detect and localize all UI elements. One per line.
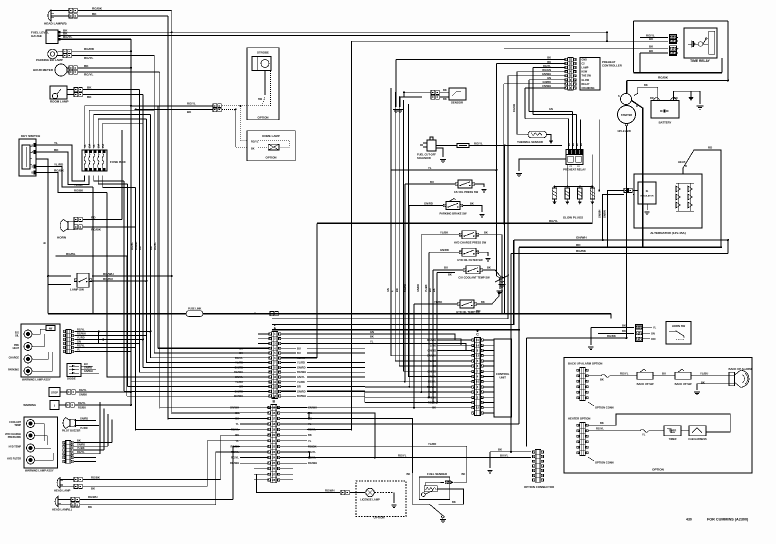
stop wires xyxy=(60,391,67,393)
battery frame arrow xyxy=(688,97,693,101)
svg-text:GN/YL: GN/YL xyxy=(235,375,243,379)
wire RG/WH lamp sw xyxy=(92,275,172,277)
wire RG/WH head lamp L xyxy=(58,498,71,500)
wire B row18 long xyxy=(307,423,519,425)
wire horn sw labels xyxy=(643,327,652,329)
wire B row24 long xyxy=(281,457,531,459)
svg-text:ST: ST xyxy=(32,166,36,169)
wire mid ground 2 xyxy=(499,278,501,289)
svg-text:WARNING LAMP ASSY: WARNING LAMP ASSY xyxy=(22,378,51,382)
svg-text:10A: 10A xyxy=(97,144,100,149)
parking brake lamp xyxy=(48,49,58,59)
svg-text:BU/WH: BU/WH xyxy=(297,394,306,398)
wire RG/WH license xyxy=(256,474,340,492)
svg-text:STARTER: STARTER xyxy=(621,114,632,117)
license lamp option box xyxy=(356,481,406,517)
connector horn xyxy=(74,217,78,221)
svg-text:GN/RD: GN/RD xyxy=(417,284,420,292)
wire fuel sender left BK xyxy=(411,420,413,504)
svg-text:RELAY: RELAY xyxy=(582,83,590,86)
wire A feeders from bundle xyxy=(158,347,244,349)
head lamp L connector xyxy=(71,497,75,501)
wire to dome lamp row1 xyxy=(240,106,247,141)
wire y48 run xyxy=(504,48,634,50)
svg-text:LAMP: LAMP xyxy=(582,67,589,70)
wire RG/BK head lamp R xyxy=(51,10,69,12)
strobe option box xyxy=(247,48,279,120)
wire YL/BK hyd charge xyxy=(421,234,459,236)
svg-text:BK: BK xyxy=(600,377,604,381)
wire starter solenoid to RG/BK xyxy=(626,81,628,94)
wire BK fuel gauge xyxy=(60,31,607,33)
svg-text:FOR CUMMINS (A2300): FOR CUMMINS (A2300) xyxy=(707,518,749,522)
wire C left step verticals xyxy=(364,391,366,402)
wire bundle vertical x135.5 xyxy=(135,188,137,431)
wire B row23 jog xyxy=(307,452,310,458)
svg-text:YL/BU: YL/BU xyxy=(700,371,708,375)
svg-text:RD: RD xyxy=(476,309,481,313)
timer relay xyxy=(684,28,717,58)
wire loop right xyxy=(727,21,729,81)
wire BK key switch xyxy=(36,152,89,185)
svg-text:BK: BK xyxy=(481,300,485,304)
svg-text:GN: GN xyxy=(370,330,374,334)
svg-text:BK: BK xyxy=(251,147,255,150)
svg-text:SW: SW xyxy=(258,98,263,101)
wire fuel sender loop xyxy=(437,488,463,490)
svg-text:BK: BK xyxy=(443,97,447,101)
alternator diodes xyxy=(676,186,681,192)
hyd oil filter switch xyxy=(462,248,476,256)
svg-text:BK: BK xyxy=(644,83,648,87)
svg-text:FUSE BOX: FUSE BOX xyxy=(110,160,127,164)
wire B to lamp switch xyxy=(36,159,48,276)
svg-text:RG/YL: RG/YL xyxy=(398,453,407,457)
svg-text:BK: BK xyxy=(433,288,436,292)
glow plug bus xyxy=(566,164,568,186)
svg-text:YL/RD: YL/RD xyxy=(54,162,64,166)
wire fuse bottom 3 xyxy=(94,176,124,182)
svg-text:GN/WH: GN/WH xyxy=(599,209,602,218)
wire controller drop5 xyxy=(507,76,509,319)
svg-text:RG/WH: RG/WH xyxy=(325,488,334,492)
wire bundle vertical x131 xyxy=(130,276,132,405)
svg-text:15A: 15A xyxy=(88,144,91,149)
wire x351 vertical xyxy=(351,41,353,430)
wire controller drop2 xyxy=(496,64,498,276)
svg-text:YL/RD: YL/RD xyxy=(80,427,88,430)
diode wires xyxy=(81,365,93,367)
warning lamp 2-1 xyxy=(27,420,35,428)
wire fuse5 riser xyxy=(103,123,143,148)
wire bundle vertical x143 xyxy=(142,95,144,368)
svg-text:OPTION: OPTION xyxy=(652,468,665,472)
node RD junctions xyxy=(254,313,256,315)
svg-text:RG/WH: RG/WH xyxy=(308,461,317,465)
svg-text:BK: BK xyxy=(470,201,474,205)
lamp switch xyxy=(77,273,89,287)
svg-text:STOP: STOP xyxy=(51,392,58,395)
svg-text:FUEL SENDER: FUEL SENDER xyxy=(427,472,447,476)
fuel sender xyxy=(419,477,450,500)
wire controller drop8 xyxy=(524,88,526,119)
wire fuse bottom 5 xyxy=(103,176,136,188)
fuse F4 xyxy=(98,154,100,168)
wire RD branch left xyxy=(272,329,519,331)
svg-text:ACC: ACC xyxy=(32,151,37,154)
wire C left horizontals xyxy=(365,381,472,383)
wire sensor BK2 xyxy=(440,96,449,98)
svg-text:BK: BK xyxy=(462,472,466,476)
svg-text:RG/WH: RG/WH xyxy=(230,461,239,465)
svg-text:YL: YL xyxy=(236,422,240,426)
option box xyxy=(564,358,752,474)
svg-text:RG/YL: RG/YL xyxy=(543,64,551,68)
svg-text:KEY SWITCH: KEY SWITCH xyxy=(21,134,41,138)
svg-text:BACK UP ALARM OPTION: BACK UP ALARM OPTION xyxy=(568,362,602,366)
warning connector xyxy=(66,403,70,407)
svg-text:OIL: OIL xyxy=(15,335,20,338)
head lamp risers xyxy=(221,435,240,479)
svg-text:BK: BK xyxy=(407,472,411,476)
svg-text:GN/WH: GN/WH xyxy=(542,72,551,76)
svg-text:YL/BK: YL/BK xyxy=(77,447,85,450)
oil press ground xyxy=(475,184,485,187)
wire battery right to arrow xyxy=(674,91,692,100)
svg-text:RG/WH: RG/WH xyxy=(88,495,97,499)
wire RD horn xyxy=(83,219,122,221)
wire right edge lower xyxy=(727,240,729,254)
connector option lamp xyxy=(213,104,217,108)
license lamp ground xyxy=(374,492,394,494)
svg-text:BK: BK xyxy=(443,88,447,92)
wire RG/RD parking lamp xyxy=(57,50,63,52)
option connector 1 xyxy=(580,368,586,401)
wire bundle vertical x124 xyxy=(123,181,125,391)
svg-text:BK: BK xyxy=(622,329,626,333)
svg-text:GN/RD: GN/RD xyxy=(440,248,449,252)
back up alarm xyxy=(729,372,735,386)
wire lamp sw left 1 xyxy=(48,275,71,277)
warning lamp assy 2 xyxy=(24,417,58,468)
wire starter M down xyxy=(626,126,628,338)
svg-text:RG/YL: RG/YL xyxy=(153,242,157,250)
preheat relay riser horizontals xyxy=(525,118,569,120)
svg-text:GN/RD: GN/RD xyxy=(297,365,306,369)
svg-text:BK: BK xyxy=(487,266,491,270)
svg-text:BR: BR xyxy=(396,288,399,292)
svg-text:DOME LAMP: DOME LAMP xyxy=(262,134,280,138)
wire RG/BK horn xyxy=(83,226,136,228)
wire to dome lamp row2 xyxy=(236,110,248,148)
svg-text:RG/WH: RG/WH xyxy=(103,272,114,276)
svg-text:YL/RD: YL/RD xyxy=(77,337,85,340)
fuse F1 xyxy=(84,154,86,168)
svg-text:PARKING: PARKING xyxy=(8,369,19,372)
wire BK coolant 2 xyxy=(437,272,455,274)
horn sw connector xyxy=(636,326,639,329)
svg-text:PARKING BR LAMP: PARKING BR LAMP xyxy=(36,58,63,62)
svg-text:B: B xyxy=(32,145,34,148)
svg-text:RG/YL: RG/YL xyxy=(549,219,558,223)
wire controller drop7 xyxy=(503,84,505,223)
svg-text:CHARGE: CHARGE xyxy=(9,357,20,360)
svg-text:RD: RD xyxy=(650,97,654,100)
wire GN/WH drop xyxy=(272,240,514,324)
wire B row16 jog xyxy=(308,413,310,419)
alternator xyxy=(634,174,702,228)
head lamp connector xyxy=(74,477,78,481)
wire horn sw 2 xyxy=(598,332,634,334)
cab harness box xyxy=(689,426,706,436)
wire option conn BK xyxy=(490,451,531,453)
connector C left wires xyxy=(437,339,472,341)
wire sensor gnd drop xyxy=(395,60,397,107)
svg-text:YL/BK: YL/BK xyxy=(425,284,428,292)
strobe switch xyxy=(262,97,265,106)
pilot buzzer wires xyxy=(75,420,97,422)
timer box xyxy=(664,426,681,436)
svg-text:RG/BK: RG/BK xyxy=(54,168,65,172)
svg-text:RG/YL: RG/YL xyxy=(231,456,239,460)
svg-text:GLOW: GLOW xyxy=(582,79,590,82)
fuse F3 xyxy=(93,154,95,168)
wire starter B bold xyxy=(632,101,643,248)
preheat controller connector xyxy=(568,58,573,90)
glow plug 4 xyxy=(590,188,594,199)
solenoid ground xyxy=(436,148,443,157)
svg-text:BU: BU xyxy=(84,363,88,366)
wire bundle vertical x158 xyxy=(157,106,159,349)
svg-text:CAB HARNESS: CAB HARNESS xyxy=(688,438,707,441)
wire RG/BL lamp sw xyxy=(56,256,127,396)
svg-text:RG/YL: RG/YL xyxy=(84,72,94,76)
svg-text:BK: BK xyxy=(370,335,374,339)
wire bundle vertical x131 xyxy=(130,39,132,276)
svg-text:BK: BK xyxy=(308,433,312,437)
svg-text:CONTROL: CONTROL xyxy=(496,372,510,376)
alternator regulator xyxy=(638,182,656,204)
svg-text:RG/RD: RG/RD xyxy=(404,284,407,292)
svg-text:BK: BK xyxy=(484,231,488,235)
svg-text:YL/BK: YL/BK xyxy=(297,380,305,384)
connector C xyxy=(475,338,481,416)
warning lamp 4W box xyxy=(46,326,55,331)
svg-text:!: ! xyxy=(54,404,55,408)
svg-text:RG/YL: RG/YL xyxy=(474,141,483,145)
svg-text:BK: BK xyxy=(138,246,142,250)
svg-text:GLOW PLUGS: GLOW PLUGS xyxy=(563,216,583,220)
wire BK head lamp L xyxy=(58,504,71,506)
svg-text:YL: YL xyxy=(653,327,657,330)
svg-text:OPTION: OPTION xyxy=(266,156,277,160)
svg-text:BK: BK xyxy=(84,64,89,68)
svg-text:GN/RD: GN/RD xyxy=(80,418,88,421)
fuel sender pin xyxy=(445,481,447,484)
wire BK hour meter xyxy=(67,67,69,69)
wire loop top xyxy=(634,20,728,22)
svg-text:HORN SW: HORN SW xyxy=(672,324,686,328)
svg-text:RG/YL: RG/YL xyxy=(596,426,604,430)
svg-text:RG/YL: RG/YL xyxy=(251,140,259,143)
svg-text:BACK UP SW: BACK UP SW xyxy=(637,382,654,386)
C/U coolant temp switch xyxy=(466,266,480,274)
glow plug 1 xyxy=(552,188,556,199)
svg-text:KSW: KSW xyxy=(582,71,588,74)
svg-text:RG/YL: RG/YL xyxy=(187,102,196,106)
connector hour meter xyxy=(69,66,73,70)
wire RG/YL hour meter xyxy=(67,71,69,73)
wire bundle vertical x127.5 xyxy=(127,184,129,386)
key switch xyxy=(19,139,36,176)
wire YL/RD bold drop xyxy=(107,193,244,378)
connector room lamp xyxy=(74,87,78,91)
wire controller drop3 xyxy=(532,68,534,115)
strobe lamp xyxy=(252,57,271,71)
back up switch 1 xyxy=(637,372,653,379)
battery xyxy=(651,101,679,119)
head lamp xyxy=(57,478,60,489)
wire RG/YL bold glow xyxy=(317,222,592,224)
wire B down to RD xyxy=(47,285,49,314)
wire bundle vertical x146.5 xyxy=(146,119,148,363)
alternator B terminal xyxy=(682,168,684,174)
wire y318 branch xyxy=(272,318,508,320)
warning assy 1 junctions xyxy=(98,332,100,344)
back up switch 2 xyxy=(675,372,691,379)
svg-text:RG/WH: RG/WH xyxy=(77,333,86,336)
svg-text:BR: BR xyxy=(32,172,36,175)
wire RD drop xyxy=(518,247,520,424)
svg-text:DIODE: DIODE xyxy=(67,377,76,381)
warning wires xyxy=(59,404,66,406)
svg-text:GN/RD: GN/RD xyxy=(424,201,433,205)
node lamp switch feed xyxy=(47,275,49,277)
oil temp right xyxy=(477,291,500,304)
svg-text:5A: 5A xyxy=(93,144,96,147)
svg-text:GAUGE: GAUGE xyxy=(31,34,42,38)
wire option conn BU/YL xyxy=(462,457,464,459)
svg-text:GN/YL: GN/YL xyxy=(297,375,305,379)
preheat relay risers xyxy=(568,119,570,150)
svg-text:OPTION: OPTION xyxy=(374,516,385,520)
wire B row19 right xyxy=(307,429,352,431)
svg-text:RG/BK: RG/BK xyxy=(74,188,84,192)
connector A xyxy=(272,332,278,399)
svg-text:YL: YL xyxy=(77,349,81,352)
svg-text:HEAD LAMP(R): HEAD LAMP(R) xyxy=(44,22,67,26)
wire pin1 stub xyxy=(640,37,668,39)
wire fuse bottom 4 xyxy=(98,176,127,185)
svg-text:HYD OIL FILTER SW: HYD OIL FILTER SW xyxy=(457,258,483,262)
wire YL key switch xyxy=(36,145,85,181)
wire heater RG/YL xyxy=(589,430,641,432)
option conn 1 label xyxy=(588,402,594,406)
svg-text:GN/WH: GN/WH xyxy=(308,405,317,409)
warning lamp 4 xyxy=(24,367,32,375)
svg-text:BK: BK xyxy=(87,95,92,99)
wire horn feed vertical xyxy=(526,338,528,446)
sensor connector xyxy=(431,90,435,94)
svg-text:HORN: HORN xyxy=(57,236,67,240)
wire GN/WH bold xyxy=(514,239,728,241)
svg-text:IG: IG xyxy=(646,190,649,193)
wire BK room lamp 2 xyxy=(67,94,74,96)
C/U oil press switch xyxy=(458,180,472,188)
svg-text:YL: YL xyxy=(54,141,58,145)
starter xyxy=(618,106,636,124)
svg-text:15A: 15A xyxy=(102,144,105,149)
wire A right runs xyxy=(307,347,365,349)
svg-text:BK: BK xyxy=(622,323,626,327)
svg-text:RD: RD xyxy=(576,243,581,247)
svg-text:RG/BK: RG/BK xyxy=(92,6,103,10)
wire horn sw 3 RG/BK xyxy=(527,337,627,339)
hyd filter ground xyxy=(479,252,489,256)
svg-text:BK: BK xyxy=(87,86,92,90)
fuel sender ground xyxy=(442,515,445,518)
wire controller drop6 xyxy=(528,80,530,112)
svg-text:RG/BK: RG/BK xyxy=(658,76,669,80)
svg-text:RG/YL: RG/YL xyxy=(130,242,134,250)
svg-text:YL: YL xyxy=(308,439,312,443)
wire bundle vertical x139.5 xyxy=(139,90,141,373)
wire A rows 2-4 long to C xyxy=(280,339,472,340)
svg-text:RG/BK: RG/BK xyxy=(134,241,138,250)
option conn 2 label xyxy=(588,457,594,461)
control unit xyxy=(494,339,512,417)
wire RD bold mid xyxy=(519,246,721,248)
wire bold loop bottom xyxy=(634,72,722,74)
warning lamp 2-2 xyxy=(27,432,35,440)
svg-text:BK: BK xyxy=(547,56,551,60)
svg-text:LICENSE LAMP: LICENSE LAMP xyxy=(360,498,380,502)
svg-text:BK: BK xyxy=(77,440,81,443)
svg-text:CONTROLLER: CONTROLLER xyxy=(602,64,622,68)
warning lamp 3 xyxy=(24,355,32,363)
svg-text:GN: GN xyxy=(387,288,390,292)
svg-text:BATTERY: BATTERY xyxy=(659,121,672,125)
svg-text:BK: BK xyxy=(54,148,59,152)
svg-text:RG/BU: RG/BU xyxy=(103,277,114,281)
wire BK fuel gauge 2 xyxy=(60,35,570,37)
wire BU oil press xyxy=(405,183,455,185)
wire riser4 drop xyxy=(598,120,600,191)
svg-text:RG/GN: RG/GN xyxy=(542,68,551,72)
svg-text:RG/BK: RG/BK xyxy=(91,475,100,479)
fuse F5 xyxy=(102,154,104,168)
svg-text:YL: YL xyxy=(370,339,374,343)
connector B xyxy=(271,405,277,483)
svg-text:GN/BK: GN/BK xyxy=(543,80,552,84)
svg-text:BU: BU xyxy=(297,351,301,355)
svg-text:RD: RD xyxy=(708,146,712,150)
svg-text:12V-2.2kW: 12V-2.2kW xyxy=(617,129,631,133)
fuel sender float xyxy=(421,493,425,497)
thermal sensor arrow xyxy=(547,135,552,141)
svg-text:THE SW: THE SW xyxy=(582,75,592,78)
parking brake ground xyxy=(463,206,483,213)
wire RG/YL parking lamp xyxy=(57,55,63,57)
svg-text:RG/GN: RG/GN xyxy=(513,104,516,112)
svg-text:430: 430 xyxy=(686,518,692,522)
wire BU backup xyxy=(653,375,675,377)
svg-text:YL/BK: YL/BK xyxy=(434,300,442,304)
wire YL/RD key switch xyxy=(36,167,93,188)
svg-text:RG/YL: RG/YL xyxy=(84,56,94,60)
svg-text:YL/RD: YL/RD xyxy=(297,361,305,365)
svg-text:TIMER: TIMER xyxy=(669,430,677,433)
